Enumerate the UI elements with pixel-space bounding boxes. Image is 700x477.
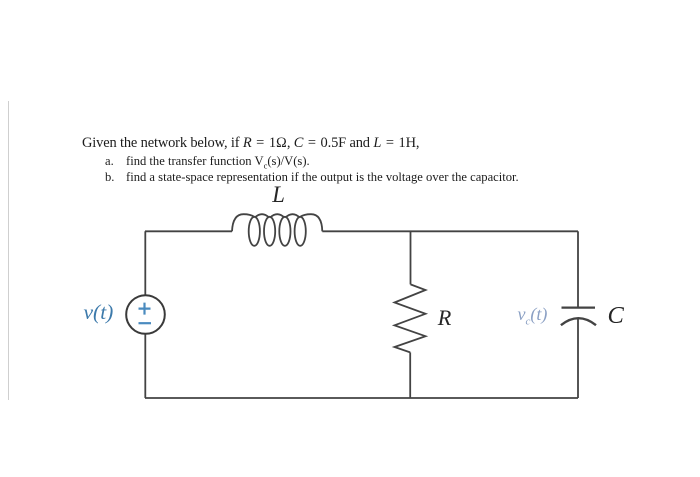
problem text line a	[105, 155, 114, 168]
label v(t)	[84, 302, 114, 324]
inductor L1 loop 1	[249, 217, 260, 246]
resistor R1 zigzag	[395, 284, 426, 352]
inductor L1 hump 3-4	[285, 214, 299, 217]
label R	[438, 307, 452, 329]
inductor L1 loop 2	[264, 217, 275, 246]
inductor L1 hump 1-2	[255, 214, 269, 217]
source minus sign	[139, 322, 152, 324]
inductor L1 loop 3	[279, 217, 290, 246]
label vc(t)	[518, 305, 548, 328]
left page-edge line	[8, 101, 9, 400]
inductor L1 entry hump	[232, 214, 254, 231]
problem text line b	[105, 171, 114, 184]
wire left vertical lower	[144, 334, 146, 398]
capacitor C1 curved plate	[561, 318, 596, 325]
wire middle branch lower	[409, 352, 411, 398]
wire bottom horizontal	[145, 397, 578, 399]
wire right vertical upper	[577, 231, 579, 307]
inductor L1 hump 2-3	[270, 214, 284, 217]
problem text line 1	[82, 136, 419, 150]
wire top-left horizontal	[145, 230, 232, 232]
wire middle branch upper	[410, 231, 412, 284]
label L	[272, 184, 285, 207]
inductor L1 exit hump	[300, 214, 322, 231]
inductor L1 loop 4	[295, 217, 306, 246]
voltage source V1 circle	[126, 295, 165, 334]
wire right vertical lower	[577, 319, 579, 398]
label C	[608, 304, 624, 329]
source plus sign	[139, 303, 151, 315]
wire left vertical upper	[144, 231, 146, 295]
wire top-right horizontal	[322, 230, 578, 232]
capacitor C1 top plate	[562, 306, 596, 308]
